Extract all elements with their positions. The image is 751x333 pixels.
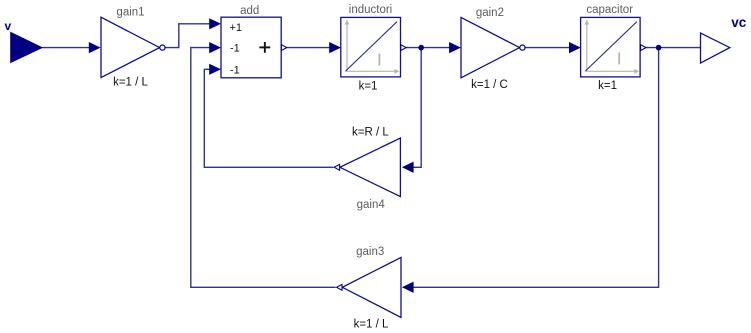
svg-text:k=1: k=1 [359,80,378,92]
svg-text:v: v [5,19,12,33]
svg-text:gain1: gain1 [116,7,144,19]
svg-text:k=1: k=1 [598,80,617,92]
svg-text:gain2: gain2 [476,7,504,19]
svg-text:k=R / L: k=R / L [352,126,389,138]
svg-text:-1: -1 [230,64,240,76]
svg-text:k=1 / L: k=1 / L [354,318,389,330]
svg-text:gain3: gain3 [356,246,384,258]
svg-text:k=1 / L: k=1 / L [113,77,148,89]
svg-text:-1: -1 [230,43,240,55]
svg-text:vc: vc [731,15,747,30]
svg-text:+1: +1 [230,22,243,34]
svg-text:k=1 / C: k=1 / C [471,79,508,91]
svg-text:capacitor: capacitor [586,4,633,16]
svg-text:add: add [240,5,259,17]
svg-text:gain4: gain4 [357,199,386,211]
svg-text:inductori: inductori [349,4,392,16]
